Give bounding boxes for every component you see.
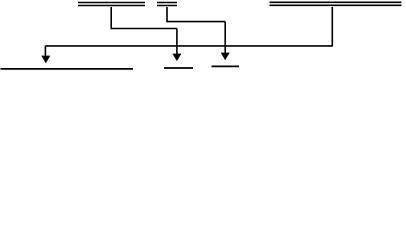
wire from slot 1 (elbow down-right) xyxy=(111,7,177,29)
target line 3 (short underline) xyxy=(212,65,240,67)
blank word slot 1 (double underline) xyxy=(78,3,145,6)
target line 2 (short underline) xyxy=(164,67,193,69)
blank word slot 2 (double underline) xyxy=(157,3,177,6)
blank word slot 3 (double underline) xyxy=(270,2,402,5)
arrow middle (down from slot-1 wire) xyxy=(172,29,181,62)
bus (long horizontal connector) xyxy=(45,45,332,47)
arrow right (down from slot-2 wire) xyxy=(221,22,230,61)
arrow left (down from bus left end) xyxy=(41,46,50,63)
wire from slot 2 (elbow down-right) xyxy=(167,7,225,22)
wire from slot 3 (drop to bus) xyxy=(331,7,333,47)
target line 1 (long underline bottom-left) xyxy=(1,68,134,70)
